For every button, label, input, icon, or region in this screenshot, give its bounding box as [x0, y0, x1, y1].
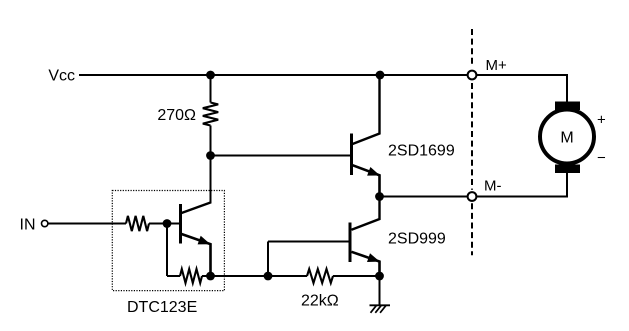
svg-text:2SD1699: 2SD1699: [388, 143, 455, 160]
svg-text:270Ω: 270Ω: [157, 107, 196, 124]
svg-text:DTC123E: DTC123E: [127, 299, 197, 316]
svg-text:22kΩ: 22kΩ: [301, 293, 339, 310]
svg-text:2SD999: 2SD999: [388, 231, 446, 248]
svg-text:M+: M+: [486, 57, 507, 74]
svg-text:M: M: [560, 130, 573, 147]
svg-text:−: −: [597, 150, 606, 167]
svg-text:IN: IN: [20, 217, 36, 234]
svg-text:Vcc: Vcc: [48, 68, 75, 85]
svg-text:M-: M-: [484, 178, 502, 195]
svg-text:+: +: [597, 112, 606, 129]
